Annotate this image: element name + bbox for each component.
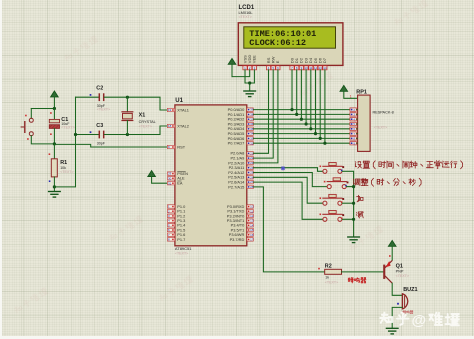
svg-text:30: 30: [168, 176, 172, 180]
pin 9 RST: [167, 144, 185, 149]
pin 36 P0.3/AD3: [228, 121, 254, 126]
label 蜂鸣器: [348, 278, 366, 283]
svg-text:<TEXT>: <TEXT>: [374, 126, 387, 130]
RP1 pin 8: [350, 137, 358, 141]
pin 16 P3.6/WR: [229, 232, 254, 237]
svg-text:XTAL2: XTAL2: [177, 123, 189, 128]
svg-text:10: 10: [250, 205, 254, 209]
watermark 知乎 @难堪: [380, 312, 459, 329]
transistor Q1 PNP: [383, 255, 409, 283]
svg-text:BUZ1: BUZ1: [403, 287, 417, 293]
power terminal RP1 pin1: [340, 85, 358, 98]
wire LCD D3 down to P0.3: [305, 70, 308, 126]
buzzer BUZ1: [397, 287, 417, 314]
pin 8 P1.7: [167, 237, 185, 242]
svg-text:<TEXT>: <TEXT>: [139, 125, 152, 129]
svg-text:1: 1: [350, 94, 352, 98]
LCD1 LM016L body: [238, 23, 343, 66]
pin 28 P2.7/A15: [228, 184, 253, 189]
svg-text:U1: U1: [175, 98, 183, 104]
svg-text:X1: X1: [139, 112, 146, 118]
buttons common wire to ground: [352, 171, 355, 237]
svg-text:<TEXT>: <TEXT>: [239, 15, 252, 19]
pin 3 P1.2: [167, 213, 185, 218]
resistor pack RP1 RESPACK-8: [350, 89, 394, 151]
wire RST net: [54, 144, 166, 147]
label 设置（时间、闹钟、正常运行）: [355, 161, 462, 169]
pin 11 P3.1/TXD: [227, 209, 253, 214]
wire crystal caps common to ground: [54, 97, 75, 187]
crystal X1: [121, 97, 155, 134]
wire Q1 collector to BUZ1: [392, 283, 402, 295]
svg-text:<TEXT>: <TEXT>: [325, 280, 338, 284]
wire E to P2.2: [253, 70, 278, 163]
pin 12 P3.2/INT0: [227, 213, 254, 218]
svg-text:13: 13: [250, 219, 254, 223]
LCD pin 14 D7: [322, 57, 327, 70]
svg-text:<TEXT>: <TEXT>: [396, 274, 409, 278]
capacitor C2 30pF: [76, 85, 167, 111]
svg-text:RESPACK-8: RESPACK-8: [373, 111, 394, 115]
wire P2 pin to button b3: [253, 177, 322, 203]
LCD pin 12 D5: [313, 57, 318, 70]
wire LCD D0 down to P0.0: [290, 70, 293, 111]
svg-text:RP1: RP1: [356, 89, 367, 95]
power terminal VCC (reset circuit): [51, 91, 59, 109]
capacitor C1 10uF (electrolytic): [49, 109, 74, 144]
LCD pin 8 D1: [294, 57, 299, 70]
svg-text:VEE: VEE: [252, 55, 257, 63]
pin 6 P1.5: [167, 227, 185, 232]
wire LCD D6 down to P0.6: [319, 70, 322, 140]
wire RS to P2.0: [253, 70, 268, 154]
node B junction: [53, 142, 56, 145]
svg-text:C3: C3: [96, 123, 103, 129]
wire P0.0 to RP1: [253, 109, 353, 111]
svg-text:30pF: 30pF: [97, 142, 106, 146]
pin 33 P0.6/AD6: [228, 136, 254, 141]
wire P2.7 to R2: [253, 187, 324, 272]
wire P0.7 to RP1: [253, 142, 353, 144]
pin 18 XTAL2: [167, 123, 189, 128]
pin 35 P0.4/AD4: [228, 126, 254, 131]
LCD pin 6 E: [275, 60, 280, 70]
pin 21 P2.0/A8: [230, 151, 253, 156]
pin 30 ALE: [167, 176, 185, 181]
svg-text:<TEXT>: <TEXT>: [60, 170, 73, 174]
svg-text:RST: RST: [177, 144, 185, 149]
push button b3: [320, 194, 354, 205]
pin 26 P2.5/A13: [228, 175, 253, 180]
push button b1: [320, 163, 354, 174]
wire P2 pin to button b2: [253, 173, 327, 187]
svg-text:14: 14: [250, 223, 254, 227]
pin 37 P0.2/AD2: [228, 117, 254, 122]
svg-text:CRYSTAL: CRYSTAL: [139, 120, 156, 124]
label 加: [357, 195, 363, 202]
pin 5 P1.4: [167, 223, 186, 228]
svg-text:P1.7: P1.7: [177, 237, 185, 242]
svg-text:P3.7/RD: P3.7/RD: [230, 237, 245, 242]
push button (reset): [21, 109, 55, 144]
svg-text:17: 17: [250, 238, 254, 242]
wire RW to P2.1: [253, 70, 273, 158]
power terminal at EA pin: [148, 171, 167, 184]
ground (LCD): [243, 91, 256, 97]
svg-text:C2: C2: [96, 85, 103, 91]
pin 24 P2.3/A11: [229, 165, 254, 170]
LCD pin 2 VDD: [247, 55, 252, 70]
wire LCD D1 down to P0.1: [295, 70, 298, 116]
pin 15 P3.5/T1: [231, 227, 254, 232]
RP1 pin 5: [350, 122, 358, 126]
svg-text:EA: EA: [177, 181, 183, 186]
resistor R2 1k: [318, 264, 341, 285]
push button b2: [324, 178, 354, 189]
LCD pin 7 D0: [289, 57, 294, 70]
pin 29 PSEN: [167, 171, 188, 176]
wire LCD D5 down to P0.5: [314, 70, 317, 135]
LCD pin 5 RW: [271, 56, 276, 70]
capacitor C3 30pF: [76, 123, 167, 146]
svg-text:XTAL1: XTAL1: [177, 107, 189, 112]
svg-text:P0.7/AD7: P0.7/AD7: [228, 141, 245, 146]
power terminal VDD of LCD: [228, 58, 236, 76]
svg-text:R2: R2: [325, 264, 332, 270]
pin 14 P3.4/T0: [231, 223, 254, 228]
LCD pin 3 VEE: [252, 55, 257, 70]
wire P2 pin to button b1: [253, 168, 322, 172]
pin 4 P1.3: [167, 218, 185, 223]
wire P0.2 to RP1: [253, 118, 353, 120]
pin 22 P2.1/A9: [230, 156, 253, 161]
label 调整（时、分、秒）: [353, 178, 421, 186]
wire BUZ1 to ground: [392, 307, 402, 328]
junction caps-common to ground: [53, 185, 56, 188]
wire P2 pin to button b4: [253, 182, 322, 219]
power terminal at Q1 emitter: [388, 240, 396, 260]
svg-text:E: E: [275, 60, 280, 63]
wire P0.3 to RP1: [253, 123, 353, 125]
svg-text:<TEXT>: <TEXT>: [61, 126, 74, 130]
svg-text:19: 19: [168, 108, 172, 112]
wire P0.1 to RP1: [253, 113, 353, 115]
wire P0.4 to RP1: [253, 128, 353, 130]
RP1 pin 7: [350, 132, 358, 136]
svg-text:PNP: PNP: [396, 270, 404, 274]
wire node A to button: [31, 107, 56, 110]
svg-text:15: 15: [250, 228, 254, 232]
svg-text:12: 12: [250, 214, 254, 218]
net marker (blue asterisk): [281, 166, 285, 170]
svg-text:29: 29: [168, 172, 172, 176]
label 减: [356, 212, 363, 218]
pin 13 P3.3/INT1: [227, 218, 254, 223]
svg-text:1k: 1k: [325, 276, 329, 280]
pin 25 P2.4/A12: [228, 170, 253, 175]
wire LCD D7 down to P0.7: [323, 70, 326, 145]
pin 2 P1.1: [167, 209, 185, 214]
pin 7 P1.6: [167, 232, 185, 237]
svg-text:P2.7/A15: P2.7/A15: [228, 184, 244, 189]
pin 17 P3.7/RD: [230, 237, 254, 242]
svg-text:AT89C51: AT89C51: [175, 246, 192, 251]
svg-text:18: 18: [168, 124, 172, 128]
RP1 pin 9: [350, 141, 358, 145]
wire VDD pin2: [232, 70, 250, 77]
wire P0.6 to RP1: [253, 137, 353, 139]
pin 34 P0.5/AD5: [228, 131, 254, 136]
push button b4: [320, 211, 354, 222]
svg-text:@: @: [412, 312, 427, 329]
svg-text:16: 16: [250, 233, 254, 237]
pin 23 P2.2/A10: [228, 160, 253, 165]
RP1 pin 6: [350, 127, 358, 131]
pin 32 P0.7/AD7: [228, 141, 254, 146]
wire LCD D2 down to P0.2: [300, 70, 303, 121]
wires VSS VEE to ground: [245, 70, 254, 91]
ground (buzzer): [386, 328, 399, 334]
svg-text:D7: D7: [322, 57, 327, 63]
svg-text:CLOCK:06:12: CLOCK:06:12: [249, 38, 306, 48]
pin 39 P0.0/AD0: [228, 107, 254, 112]
wire LCD D4 down to P0.4: [309, 70, 312, 131]
LCD pin 11 D4: [308, 57, 313, 70]
LCD pin 4 RS: [266, 57, 271, 70]
pin 31 EA: [167, 181, 182, 186]
pin 10 P3.0/RXD: [227, 204, 254, 209]
svg-text:<TEXT>: <TEXT>: [175, 252, 188, 256]
junction X1 top: [126, 96, 129, 99]
LCD pin 13 D6: [318, 57, 323, 70]
wire R2 to Q1 base: [342, 271, 384, 273]
LCD pin 10 D3: [303, 57, 308, 70]
RP1 pin 2: [350, 108, 358, 112]
resistor R1 10k: [49, 144, 74, 192]
LCD screen: [244, 27, 336, 48]
RP1 pin 4: [350, 117, 358, 121]
LCD1 labels: [239, 5, 255, 19]
wire P0.5 to RP1: [253, 133, 353, 135]
pin 19 XTAL1: [167, 107, 189, 112]
pin 38 P0.1/AD1: [228, 112, 254, 117]
LCD pin 1 VSS: [242, 55, 247, 70]
ground (buttons): [347, 237, 360, 243]
junction X1 bottom / C3: [74, 133, 129, 136]
ground (reset divider): [48, 192, 61, 198]
svg-text:11: 11: [250, 209, 253, 213]
op: microcontroller U1 AT89C51 body: [175, 98, 247, 256]
svg-text:31: 31: [168, 181, 172, 185]
RP1 pin 3: [350, 113, 358, 117]
LCD pin 9 D2: [299, 57, 304, 70]
svg-text:<TEXT>: <TEXT>: [97, 108, 110, 112]
pin 1 P1.0: [167, 204, 186, 209]
pin 27 P2.6/A14: [228, 180, 253, 185]
